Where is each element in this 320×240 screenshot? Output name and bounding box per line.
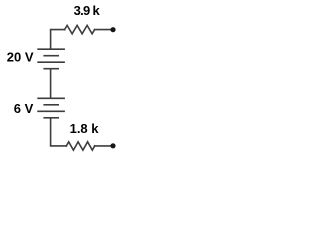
resistor R2 zigzag [66,142,94,150]
terminal A dot [110,27,115,32]
resistor R1 zigzag [65,25,95,33]
svg-text:6 V: 6 V [14,101,34,116]
battery V2 6V plate 2 short [44,104,58,106]
terminal B dot [110,143,115,148]
wire R1 to terminal A [95,29,112,31]
svg-text:1.8 k: 1.8 k [70,121,100,136]
battery V2 6V plate 3 long [38,110,64,112]
battery V2 6V plate 4 short [44,117,58,119]
wire between batteries [50,69,52,98]
svg-text:3.9 k: 3.9 k [74,3,101,18]
wire top-left corner to resistor R1 [51,30,65,49]
wire R2 to terminal B [95,145,112,147]
battery V2 6V plate 1 long [38,97,64,99]
battery V1 20V plate 4 short [44,68,58,70]
battery V1 20V plate 3 long [38,61,64,63]
battery V1 20V plate 1 long [38,48,64,50]
battery V1 20V plate 2 short [44,55,58,57]
wire battery V2 to bottom corner [51,118,67,146]
svg-text:20 V: 20 V [7,50,34,65]
